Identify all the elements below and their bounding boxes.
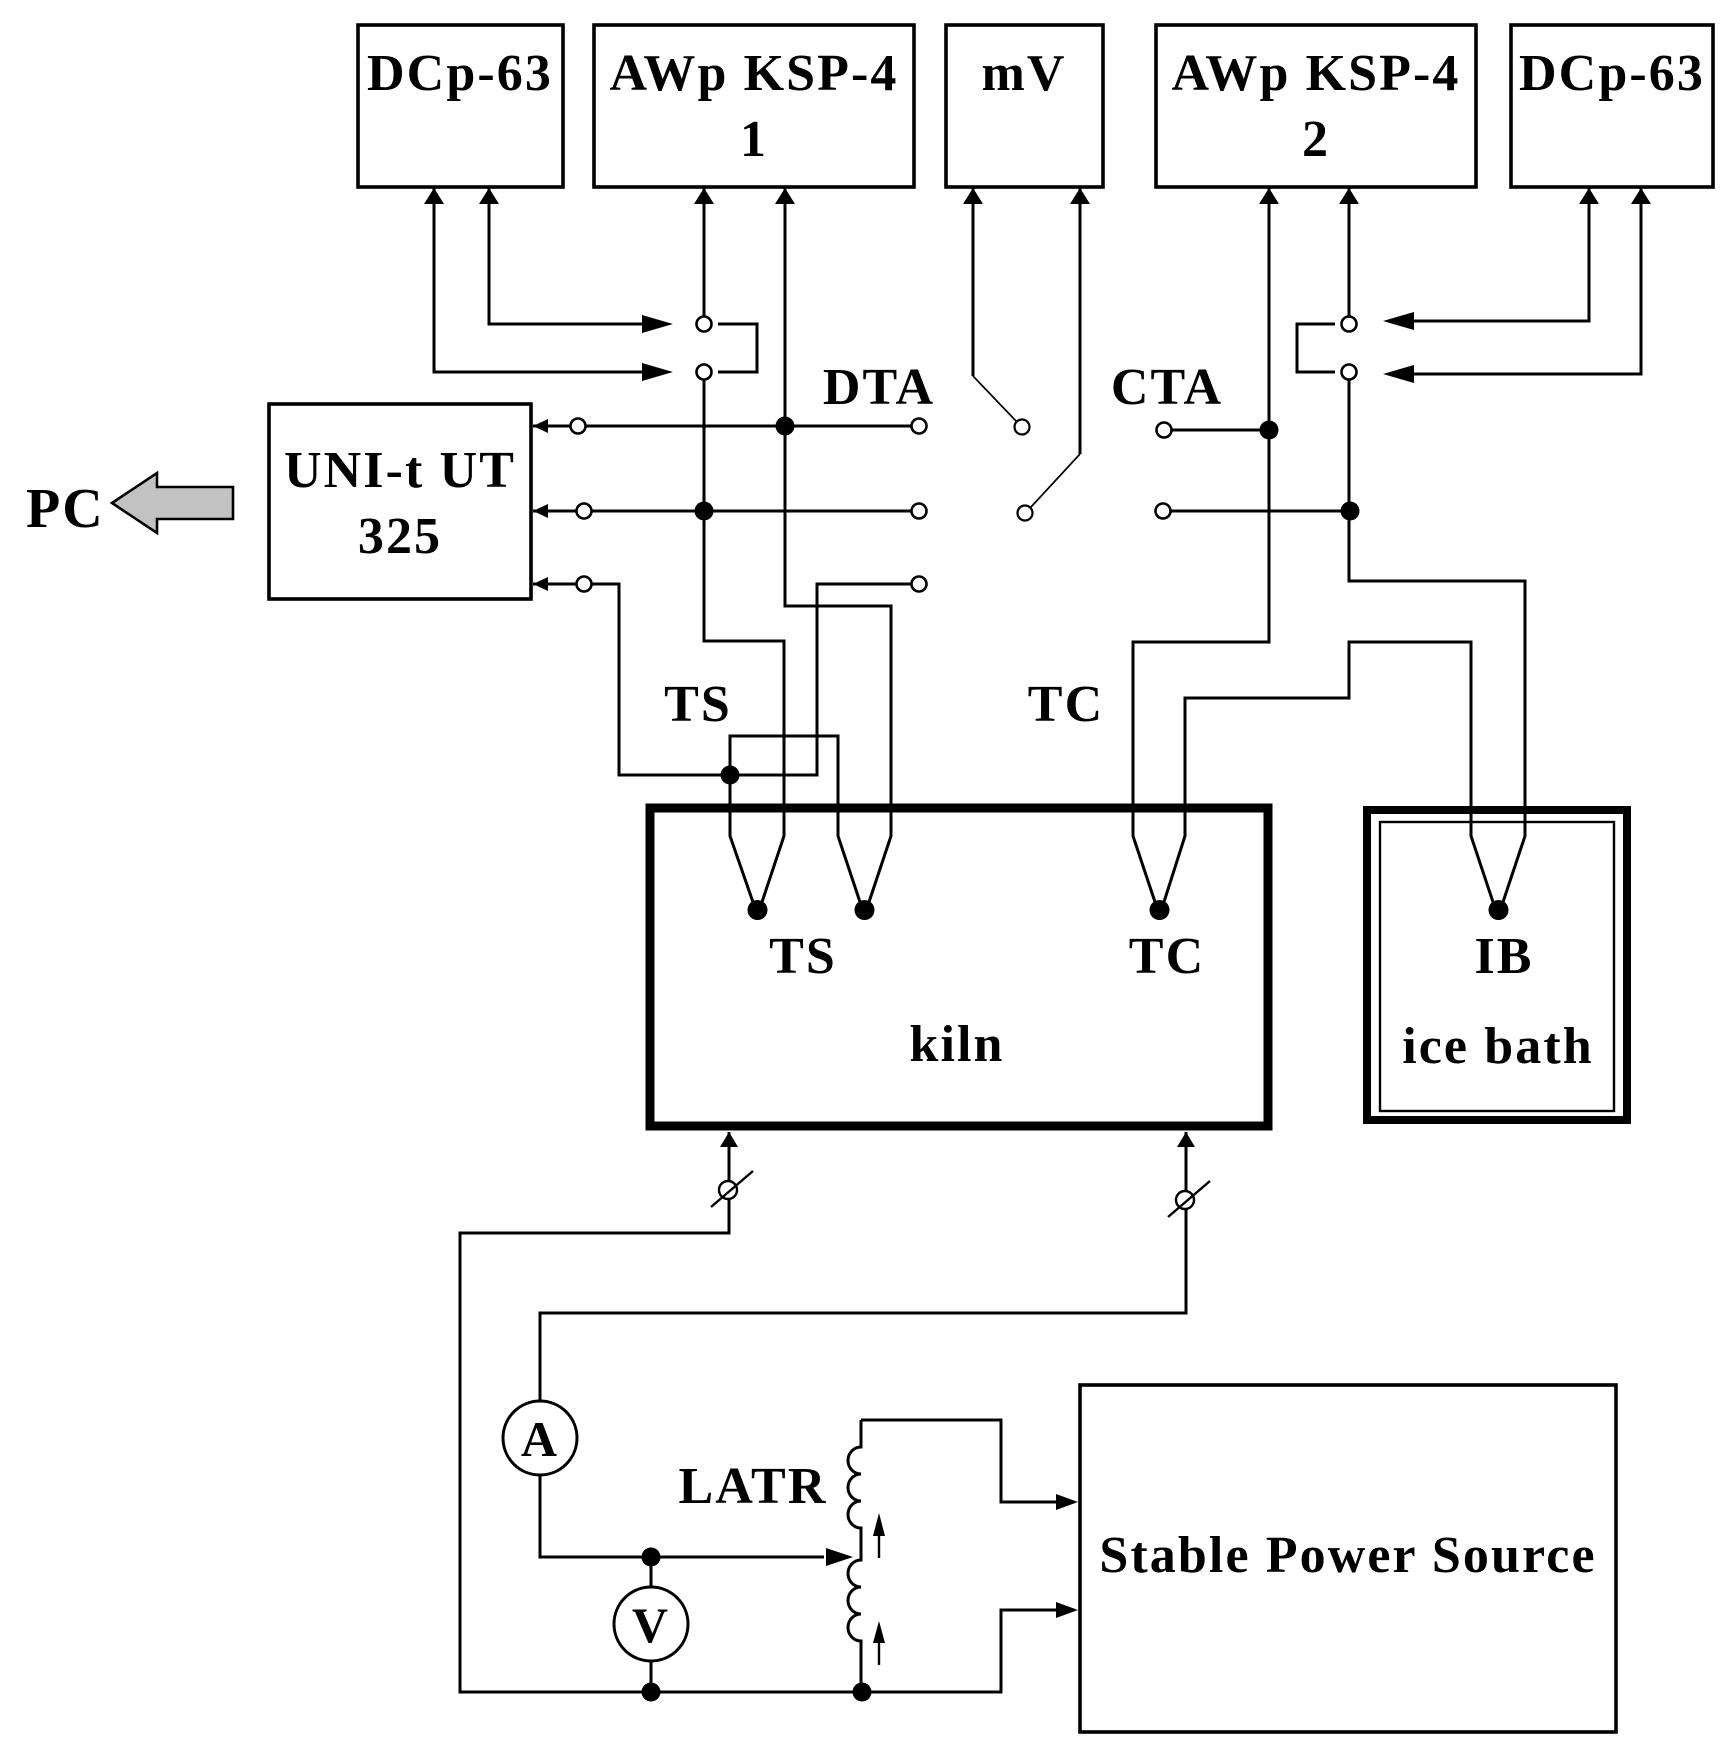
lead dress symbol right bbox=[1168, 1181, 1210, 1217]
svg-text:TC: TC bbox=[1028, 676, 1104, 733]
junction row1 x AWp1 pin2 bbox=[776, 417, 795, 436]
thermocouple junction TS2 bbox=[855, 900, 875, 920]
pin DCp-63 right, pin1 bbox=[1579, 188, 1599, 204]
kiln box bbox=[650, 808, 1268, 1126]
junction CTA row2 x AWp2 pin2 branch bbox=[1341, 502, 1360, 521]
arrow to PC bbox=[112, 473, 233, 533]
wire AWp2 pin2 through right switch to ice bath funnel right leg bbox=[1349, 188, 1525, 905]
pin DCp-63 left, pin2 bbox=[479, 188, 499, 204]
svg-text:V: V bbox=[632, 1597, 670, 1653]
instrument box mV bbox=[946, 25, 1103, 187]
svg-text:A: A bbox=[521, 1411, 559, 1467]
CTA contact row2 bbox=[1156, 504, 1351, 519]
wire LATR top to power source bbox=[861, 1420, 1078, 1510]
svg-text:AWp KSP-4: AWp KSP-4 bbox=[609, 45, 898, 102]
junction wiper x voltmeter bbox=[642, 1548, 661, 1567]
thermocouple junction IB bbox=[1489, 900, 1509, 920]
thermocouple junction TS1 bbox=[748, 900, 768, 920]
wire DCp-63R pin2 to lower right contact, with arrow bbox=[1383, 188, 1641, 383]
stable power source box bbox=[1080, 1385, 1616, 1732]
LATR tap arrow lower bbox=[873, 1621, 885, 1665]
svg-text:DCp-63: DCp-63 bbox=[1519, 45, 1705, 102]
svg-text:DTA: DTA bbox=[823, 359, 935, 416]
wire AWp2 pin1 down to kiln funnel TC left leg bbox=[1133, 188, 1269, 905]
junction TS node bbox=[721, 766, 740, 785]
wire ammeter to LATR wiper bbox=[540, 1475, 853, 1566]
svg-text:IB: IB bbox=[1474, 928, 1533, 985]
pin AWp KSP-4 1, pin1 bbox=[694, 188, 714, 204]
LATR tap arrow upper bbox=[873, 1513, 885, 1558]
junction CTA row1 x AWp2 pin1 bbox=[1260, 421, 1279, 440]
svg-text:PC: PC bbox=[26, 478, 105, 540]
wire TS junction up and over to kiln funnel F2 left leg bbox=[730, 736, 861, 905]
wire voltmeter to bottom rail bbox=[650, 1660, 653, 1692]
junction bottom rail x voltmeter bbox=[642, 1683, 661, 1702]
svg-text:mV: mV bbox=[981, 45, 1066, 102]
ice bath box bbox=[1367, 810, 1627, 1120]
pin DCp-63 left, pin1 bbox=[424, 188, 444, 204]
instrument box AWp KSP-4 2 bbox=[1156, 25, 1476, 187]
svg-text:TS: TS bbox=[769, 928, 837, 985]
wire to voltmeter bbox=[650, 1557, 653, 1588]
wire AWp1 pin2 down through row1 to kiln funnel F2 right leg bbox=[785, 188, 891, 905]
wire DCp-63L pin2 to upper switch contact, with arrow bbox=[489, 188, 673, 333]
left ganged-switch contact upper bbox=[697, 317, 712, 332]
pin mV, pin2 bbox=[1070, 188, 1090, 204]
wire DCp-63L pin1 to lower switch contact, with arrow bbox=[434, 188, 673, 381]
wire mV pin2 with selector blade to DTA bbox=[1018, 188, 1081, 521]
heater lead left: kiln to bottom rail bbox=[460, 1132, 1078, 1692]
svg-text:325: 325 bbox=[358, 508, 442, 565]
pin DCp-63 right, pin2 bbox=[1631, 188, 1651, 204]
right switch gang bracket bbox=[1297, 324, 1335, 372]
instrument box AWp KSP-4 1 bbox=[594, 25, 914, 187]
wire TS junction down to kiln funnel F1 left leg bbox=[730, 775, 754, 905]
wire mV pin1 with selector blade to DTA bbox=[973, 188, 1030, 435]
svg-text:kiln: kiln bbox=[909, 1016, 1004, 1073]
pin AWp KSP-4 1, pin2 bbox=[775, 188, 795, 204]
instrument box DCp-63 right bbox=[1511, 25, 1713, 187]
CTA contact row1 bbox=[1157, 423, 1270, 438]
thermocouple junction TC bbox=[1150, 900, 1170, 920]
junction bottom rail x LATR bbox=[853, 1683, 872, 1702]
svg-text:CTA: CTA bbox=[1111, 359, 1223, 416]
svg-text:UNI-t UT: UNI-t UT bbox=[284, 442, 516, 499]
svg-text:ice bath: ice bath bbox=[1402, 1018, 1594, 1075]
left ganged-switch contact lower bbox=[697, 365, 712, 380]
wire kiln TC right leg over to ice bath funnel left leg bbox=[1163, 642, 1494, 905]
pin UNI-t row1 bbox=[533, 419, 548, 433]
lead dress symbol left bbox=[711, 1171, 753, 1207]
wire UNI-t row1 (DTA) bbox=[533, 419, 927, 434]
ammeter A bbox=[503, 1401, 577, 1475]
pin AWp KSP-4 2, pin1 bbox=[1259, 188, 1279, 204]
right ganged-switch contact lower bbox=[1342, 365, 1357, 380]
instrument box DCp-63 left bbox=[358, 25, 563, 187]
svg-text:TS: TS bbox=[664, 676, 732, 733]
junction row2 x AWp1 pin1 bbox=[695, 502, 714, 521]
pin AWp KSP-4 2, pin2 bbox=[1339, 188, 1359, 204]
wire DCp-63R pin1 to upper right contact, with arrow bbox=[1383, 188, 1589, 330]
wire AWp1 pin1 down through switch and row2 to kiln funnel F1 right leg bbox=[704, 188, 784, 905]
svg-text:TC: TC bbox=[1129, 928, 1205, 985]
wire UNI-t row3 detour via TS junction bbox=[533, 577, 927, 776]
svg-text:AWp KSP-4: AWp KSP-4 bbox=[1171, 45, 1460, 102]
svg-text:Stable Power Source: Stable Power Source bbox=[1099, 1527, 1596, 1584]
right ganged-switch contact upper bbox=[1342, 317, 1357, 332]
svg-text:1: 1 bbox=[740, 111, 768, 168]
voltmeter V bbox=[614, 1587, 688, 1661]
pin UNI-t row2 bbox=[533, 504, 548, 518]
PC label bbox=[26, 478, 105, 540]
svg-text:DCp-63: DCp-63 bbox=[367, 45, 553, 102]
svg-text:2: 2 bbox=[1302, 111, 1330, 168]
wire UNI-t row2 bbox=[533, 504, 927, 519]
LATR autotransformer coil bbox=[848, 1420, 861, 1692]
pin UNI-t row3 bbox=[533, 577, 548, 591]
svg-text:LATR: LATR bbox=[678, 1458, 827, 1515]
heater lead right: kiln to ammeter bbox=[540, 1132, 1195, 1401]
multimeter box UNI-t UT 325 bbox=[269, 404, 531, 599]
left switch gang bracket bbox=[718, 324, 757, 372]
pin mV, pin1 bbox=[963, 188, 983, 204]
